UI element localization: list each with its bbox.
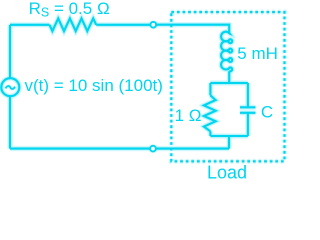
main art layer [1,12,284,161]
svg-text:Load: Load [207,162,247,179]
node glow layer [150,22,156,152]
glow layer [1,12,284,161]
svg-text:v(t) = 10 sin (100t): v(t) = 10 sin (100t) [25,76,163,95]
nodes main [150,22,156,152]
sine glow [6,86,15,89]
svg-text:1 Ω: 1 Ω [175,106,202,125]
svg-text:5 mH: 5 mH [237,44,278,63]
svg-text:C: C [261,103,273,122]
sine main [6,86,15,89]
svg-text:RS = 0.5 Ω: RS = 0.5 Ω [29,0,110,19]
